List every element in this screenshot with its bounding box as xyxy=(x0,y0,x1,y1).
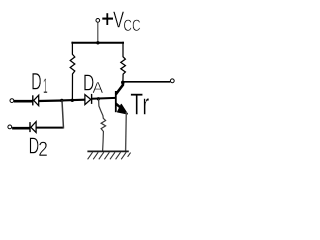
diode D1 xyxy=(33,95,39,106)
node junction dot (D2 branch) xyxy=(60,99,63,102)
wire input B to D2 xyxy=(12,127,30,130)
wire D2 to riser xyxy=(36,127,64,129)
wire riser D2 up to node xyxy=(62,100,64,128)
svg-text:Tr: Tr xyxy=(130,86,149,121)
node junction dot at VCC tap xyxy=(96,41,99,44)
input terminal A circle xyxy=(10,99,14,103)
transistor Tr collector stroke xyxy=(116,82,123,94)
ground hatching xyxy=(88,152,131,159)
node junction dot (collector node) xyxy=(121,81,125,85)
resistor R3 (base pull-down) xyxy=(99,99,106,151)
wire emitter lead down xyxy=(125,112,128,151)
transistor Tr emitter stroke with arrow xyxy=(116,104,128,114)
wire VCC stem xyxy=(97,23,99,43)
label D2 xyxy=(29,133,48,162)
wire top rail xyxy=(71,42,124,44)
ground bar xyxy=(87,150,128,152)
transistor Tr base bar xyxy=(115,91,117,112)
wire D1 to node xyxy=(39,99,63,102)
resistor R2 (collector load) xyxy=(121,42,126,83)
svg-text:CC: CC xyxy=(123,17,140,35)
wire collector to output xyxy=(123,81,170,83)
svg-text:1: 1 xyxy=(43,74,48,98)
svg-text:D: D xyxy=(31,68,41,95)
svg-text:A: A xyxy=(92,80,103,97)
input terminal B circle xyxy=(8,125,12,129)
wire DA to base xyxy=(92,97,116,100)
wire input A to D1 xyxy=(14,100,33,103)
label DA xyxy=(83,70,104,97)
output terminal circle xyxy=(170,79,174,83)
label VCC text xyxy=(113,6,141,35)
resistor R1 (left pull-up) xyxy=(70,42,75,100)
label +VCC plus sign xyxy=(102,13,113,25)
wire node to DA xyxy=(62,99,85,102)
node junction dot (base node) xyxy=(97,97,100,100)
VCC terminal circle xyxy=(96,19,100,23)
label D1 xyxy=(31,68,47,97)
diode D2 xyxy=(30,122,36,133)
svg-text:2: 2 xyxy=(38,138,48,161)
diode DA xyxy=(85,94,92,105)
node junction dot (R1 branch) xyxy=(71,99,74,102)
